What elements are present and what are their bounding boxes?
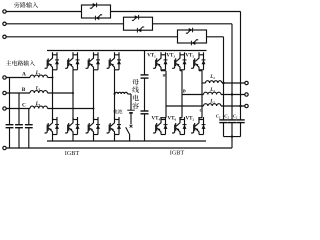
junction row1 bypass3 [222,82,224,84]
wire bypass line2 vertical drop [231,24,233,120]
svg-text:A: A [22,72,26,78]
svg-text:VT5: VT5 [185,53,194,58]
capacitor bus lower [141,110,149,112]
capacitor output 3 [236,119,244,121]
capacitor input B [15,124,23,126]
inductor L2 row1 [206,81,223,83]
wire row3 to terminal [221,105,247,107]
wire row1 to terminal [222,82,247,84]
IGBT inverter bottom cell VT4 [153,124,156,133]
terminal input N [3,146,6,149]
switch cross mark [130,125,133,128]
wire bypass line1 left [6,11,81,13]
wire rectifier bottom cell 3 to bus [93,135,95,142]
terminal output row3 [245,104,248,107]
wire rectifier leg 2 [72,70,74,120]
svg-text:VT6: VT6 [168,117,177,122]
wire cap drop B [18,93,20,125]
wire C to leg3 [48,108,94,110]
inductor L2 row2 [204,92,222,94]
svg-text:IGBT: IGBT [65,150,80,156]
wire rectifier bottom cell 2 to bus [72,135,74,142]
junction U-rail center [231,135,233,137]
wire neutral rail [6,147,232,149]
terminal bypass phase 1 [3,10,6,13]
terminal output row1 [245,81,248,84]
wire row3 from leg1 [166,105,204,107]
wire inverter leg 3 top jog [198,69,200,72]
IGBT rectifier bottom cell 2 [65,124,68,133]
wire switch to DC- bus [129,134,131,141]
wire inverter leg 1 top jog [160,69,162,72]
IGBT rectifier bottom cell 3 [86,124,89,133]
wire bus-cap lower [144,114,146,141]
label main-input 主电路输入 [6,60,11,65]
svg-text:C: C [22,103,26,109]
wire input C [6,108,30,110]
capacitor bus upper [141,74,149,76]
inductor L1-C [30,106,48,108]
wire bypass line3 right [207,36,224,38]
IGBT rectifier top cell 4 [107,60,110,69]
inductor battery L [115,92,128,94]
terminal input A [3,76,6,79]
capacitor input A [6,124,14,126]
wire cap C to rail [28,128,30,148]
svg-text:VT4: VT4 [152,117,161,122]
IGBT rectifier top cell 3 [86,60,89,69]
wire row1 from leg3 [202,82,206,84]
junction leg4 battery [114,93,116,95]
wire DC- bus [47,140,206,142]
terminal input B [3,91,6,94]
wire rectifier leg 4 [114,70,116,120]
label battery 电池 [114,109,118,113]
wire bypass line2 left [6,23,123,25]
wire cap drop A [9,78,11,125]
inductor L2 row3 [204,104,222,106]
wire rectifier bottom cell 1 to bus [52,135,54,142]
wire A to leg1 [48,77,53,79]
svg-text:b: b [183,89,186,95]
wire cap A to rail [9,128,11,148]
junction row2 bypass2 [231,93,233,95]
IGBT inverter bottom cell VT6 [172,124,175,133]
wire row2 from leg2 [182,94,204,96]
wire output caps to U-rail [223,123,225,137]
wire inverter leg 2 [181,71,183,118]
wire input A [6,77,30,79]
IGBT rectifier bottom cell 4 [107,124,110,133]
IGBT rectifier bottom cell 1 [45,124,48,133]
wire bypass line1 vertical drop [240,12,242,120]
wire bus-cap middle [144,78,146,111]
wire inductor to battery top [128,93,132,95]
junction A-leg1 [52,77,54,79]
thyristor pair box VS1 [82,5,111,18]
wire inverter leg 3 lower [201,83,203,118]
thyristor pair box VS2 [124,17,153,30]
wire cap B to rail [18,128,20,148]
capacitor output 2 [228,119,236,121]
terminal bypass phase 3 [3,35,6,38]
wire inverter leg 3 [201,71,203,83]
wire inverter leg 2 top jog [179,69,181,72]
wire rectifier leg 3 [93,70,95,120]
wire inverter leg 1 bottom jog [161,117,166,119]
label bypass-input 旁路输入 [14,2,20,8]
IGBT inverter top cell VT5 [191,60,194,69]
capacitor input C [25,124,33,126]
IGBT inverter top cell VT3 [172,60,175,69]
terminal output row2 [245,93,248,96]
svg-text:VT3: VT3 [166,53,175,58]
junction B-leg2 [72,92,74,94]
label bus-capacitor 母线电容 (vertical) [132,79,139,85]
wire bypass line2 right [153,23,233,25]
wire U-rail [224,136,241,138]
terminal bypass phase 2 [3,22,6,25]
svg-text:B: B [22,87,26,93]
svg-text:VT2: VT2 [186,117,195,122]
IGBT inverter bottom cell VT2 [191,124,194,133]
svg-text:a: a [163,73,166,79]
wire row2 to terminal [221,94,247,96]
battery cell [127,109,134,111]
wire bus-cap upper [144,51,146,75]
wire inverter leg 2 bottom jog [180,117,182,119]
wire U-rail to neutral [231,137,233,148]
svg-text:VT1: VT1 [147,53,156,58]
junction row3 bypass1 [239,105,241,107]
wire cap drop C [28,109,30,125]
wire DC+ bus [47,50,207,52]
wire input B [6,92,30,94]
wire rectifier bottom cell 4 to bus [114,135,116,142]
thyristor pair box VS3 [178,30,207,43]
svg-text:L2: L2 [209,75,215,80]
wire bypass line3 vertical drop [223,37,225,120]
inductor L1-B [30,91,48,93]
switch blade [126,127,130,134]
wire rectifier leg 1 [52,70,54,120]
wire B to leg2 [48,92,74,94]
wire battery to switch [130,114,132,125]
wire inverter leg 1 [165,71,167,118]
wire bypass line3 left [6,36,177,38]
svg-text:IGBT: IGBT [170,150,185,156]
IGBT rectifier top cell 1 [45,60,48,69]
capacitor output 1 [219,119,227,121]
IGBT inverter top cell VT1 [153,60,156,69]
junction C-leg3 [93,108,95,110]
terminal input C [3,107,6,110]
wire bypass line1 right [111,11,241,13]
IGBT rectifier top cell 2 [65,60,68,69]
inductor L1-A [30,75,48,77]
wire inverter leg 3 bottom jog [199,117,202,119]
